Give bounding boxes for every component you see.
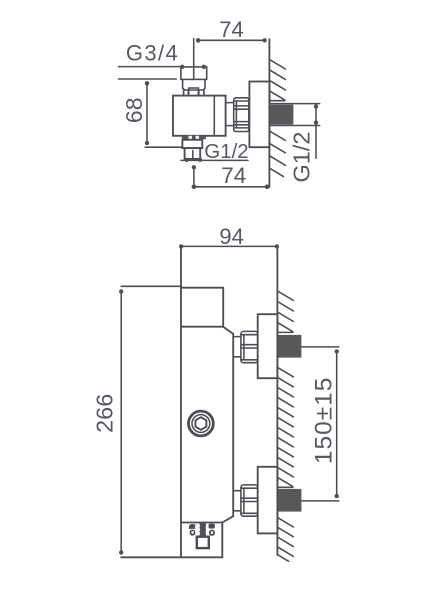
svg-text:94: 94 xyxy=(219,224,243,249)
valve main body (top view) xyxy=(173,96,226,136)
svg-text:150±15: 150±15 xyxy=(311,377,338,465)
dim 150±15 (rotated) xyxy=(301,347,339,501)
svg-text:68: 68 xyxy=(121,98,147,124)
svg-text:266: 266 xyxy=(92,394,118,433)
G3/4 hex nut (top of valve) xyxy=(181,67,207,96)
svg-text:G3/4: G3/4 xyxy=(126,40,179,65)
control knob xyxy=(189,411,214,436)
wall escutcheon (top view) xyxy=(249,82,269,148)
lower connection neck xyxy=(233,491,241,511)
upper connection neck xyxy=(233,337,241,357)
washer under body xyxy=(182,136,206,139)
dark pipe block in wall xyxy=(270,105,294,125)
dim G1/2 (right, rotated) xyxy=(315,104,317,159)
upper escutcheon xyxy=(258,314,278,378)
svg-text:74: 74 xyxy=(219,17,243,42)
dim line 94 xyxy=(181,245,277,247)
lower hex nut xyxy=(241,485,258,516)
upper dark block in wall xyxy=(278,335,302,358)
svg-text:74: 74 xyxy=(221,163,246,188)
wall line (front view) xyxy=(276,246,278,555)
upper hex nut xyxy=(241,331,258,362)
G3/4 leader line xyxy=(119,67,183,79)
lower G1/2 fitting xyxy=(182,140,202,148)
lower dark block in wall xyxy=(278,489,302,512)
outlet hex nut G1/2 (to wall) xyxy=(234,98,249,132)
bottom icon symbols xyxy=(189,522,215,536)
lower escutcheon xyxy=(258,467,278,534)
dim line 68 xyxy=(145,83,182,147)
wall hatching (top view) xyxy=(269,59,285,176)
wall line (top view) xyxy=(268,39,270,187)
valve body (front view) xyxy=(180,246,182,557)
svg-text:G1/2: G1/2 xyxy=(289,132,315,183)
dim line 74 (top) xyxy=(194,39,265,80)
wall hatching (front view) xyxy=(277,291,293,561)
neck to outlet nut xyxy=(226,103,234,126)
pipe through wall xyxy=(269,104,319,126)
